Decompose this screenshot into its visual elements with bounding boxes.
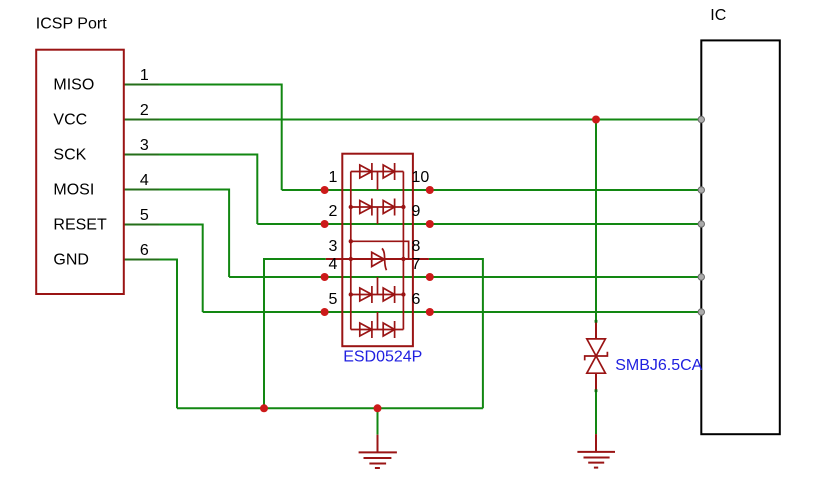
ESD row4 rail xyxy=(351,294,404,296)
zener diode DZ xyxy=(372,252,385,266)
junction left-bus row2 xyxy=(349,205,353,209)
svg-text:SCK: SCK xyxy=(53,147,86,164)
svg-text:2: 2 xyxy=(140,102,149,119)
wire MOSI net xyxy=(124,190,229,278)
wire pin8 riser xyxy=(429,259,483,408)
diode D1b xyxy=(383,165,394,178)
ESD row4 tap xyxy=(377,277,379,295)
wire MISO net xyxy=(124,85,282,191)
wire pin3 to rail xyxy=(264,259,326,408)
IC U2 box xyxy=(701,40,780,434)
ESD row2 tap xyxy=(377,207,379,224)
svg-text:1: 1 xyxy=(140,67,149,84)
svg-text:ICSP Port: ICSP Port xyxy=(36,16,107,33)
IC pin dot row312 xyxy=(698,309,704,315)
wire row pin5-pin6 to IC xyxy=(203,311,701,313)
wire rail to mid ground xyxy=(377,408,379,434)
pin stub SCK xyxy=(124,154,159,156)
IC pin dot row190 xyxy=(698,187,704,193)
svg-text:SMBJ6.5CA: SMBJ6.5CA xyxy=(615,357,702,374)
svg-text:RESET: RESET xyxy=(53,217,107,234)
svg-text:3: 3 xyxy=(140,137,149,154)
pin stub GND xyxy=(124,259,159,261)
ground symbol right xyxy=(595,434,597,452)
junction dot pin6 xyxy=(426,308,434,316)
svg-text:6: 6 xyxy=(140,242,149,259)
wire row pin2-pin9 to IC xyxy=(257,223,700,225)
junction left-bus pin3 link xyxy=(349,239,353,243)
ESD row1 rail xyxy=(351,171,404,173)
junction dot pin7 xyxy=(426,273,434,281)
svg-text:10: 10 xyxy=(412,169,430,186)
wire ground rail xyxy=(177,407,483,409)
wire VCC net xyxy=(124,119,701,121)
IC pin dot VCC xyxy=(698,116,704,122)
svg-text:MISO: MISO xyxy=(53,77,94,94)
junction dot pin2 xyxy=(321,220,329,228)
ESD pin3 top link xyxy=(351,241,409,259)
wire row pin1-pin10 to IC xyxy=(282,189,701,191)
diode D2b xyxy=(383,201,394,214)
svg-text:2: 2 xyxy=(329,203,338,220)
diode D4b xyxy=(383,288,394,301)
ESD row2 rail xyxy=(351,206,404,208)
ESD row5 rail xyxy=(351,329,404,331)
junction dot pin1 xyxy=(321,186,329,194)
svg-text:5: 5 xyxy=(329,291,338,308)
wire TVS to ground xyxy=(595,391,597,434)
ground symbol mid xyxy=(377,435,379,453)
connector J1 ICSP Port box xyxy=(36,50,124,294)
diode D5b xyxy=(383,323,394,336)
IC pin dot row277 xyxy=(698,274,704,280)
diode D2a xyxy=(360,201,372,214)
junction dot VCC-TVS xyxy=(592,116,600,124)
junction dot pin4 xyxy=(321,273,329,281)
ESD row5 tap xyxy=(377,312,379,330)
junction left-bus row4 xyxy=(349,292,353,296)
svg-text:MOSI: MOSI xyxy=(53,182,94,199)
junction dot rail-ground xyxy=(374,404,382,412)
ESD zener row line pin3-pin8 xyxy=(326,258,429,260)
svg-text:9: 9 xyxy=(412,203,421,220)
svg-text:4: 4 xyxy=(329,256,338,273)
junction right-bus row4 xyxy=(401,292,405,296)
svg-text:GND: GND xyxy=(53,252,89,269)
svg-text:4: 4 xyxy=(140,172,149,189)
wire GND net down xyxy=(124,260,177,409)
svg-text:3: 3 xyxy=(329,238,338,255)
svg-text:8: 8 xyxy=(412,238,421,255)
junction dot pin5 xyxy=(321,308,329,316)
junction left-bus zener row xyxy=(349,257,353,261)
junction dot pin10 xyxy=(426,186,434,194)
svg-text:7: 7 xyxy=(412,256,421,273)
diode D4a xyxy=(360,288,372,301)
wire row pin4-pin7 to IC xyxy=(229,276,700,278)
wire VCC to TVS xyxy=(595,120,597,322)
pin stub MISO xyxy=(124,84,159,86)
svg-text:ESD0524P: ESD0524P xyxy=(343,348,422,365)
ESD row1 tap xyxy=(377,172,379,191)
svg-text:VCC: VCC xyxy=(53,112,87,129)
ESD left bus xyxy=(350,172,352,330)
junction right-bus zener row xyxy=(401,257,405,261)
junction dot rail-pin3 xyxy=(260,404,268,412)
ESD right bus xyxy=(402,172,404,330)
svg-text:IC: IC xyxy=(710,7,726,24)
svg-text:5: 5 xyxy=(140,207,149,224)
IC pin dot row224 xyxy=(698,221,704,227)
pin stub VCC xyxy=(124,119,159,121)
junction right-bus row2 xyxy=(401,205,405,209)
wire RESET net xyxy=(124,225,203,313)
wire SCK net xyxy=(124,155,257,225)
TVS pin end markers xyxy=(595,320,598,323)
pin stub RESET xyxy=(124,224,159,226)
diode D5a xyxy=(360,323,372,336)
pin stub MOSI xyxy=(124,189,159,191)
svg-text:1: 1 xyxy=(329,169,338,186)
diode D1a xyxy=(360,165,372,178)
ESD array U1 box xyxy=(342,154,413,347)
TVS D6 SMBJ6.5CA xyxy=(595,321,597,339)
junction dot pin9 xyxy=(426,220,434,228)
svg-text:6: 6 xyxy=(412,291,421,308)
